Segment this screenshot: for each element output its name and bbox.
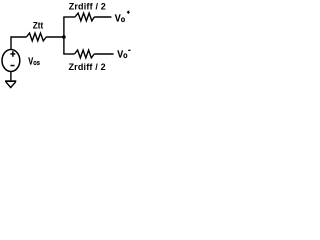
wire: bottom branch right bbox=[94, 53, 113, 55]
wire: bottom branch left bbox=[63, 53, 74, 55]
minus sign bbox=[11, 65, 15, 67]
svg-text:Zrdiff / 2: Zrdiff / 2 bbox=[69, 62, 106, 72]
svg-text:Vos: Vos bbox=[28, 55, 40, 67]
svg-text:Ztt: Ztt bbox=[33, 20, 44, 30]
wire: top branch left bbox=[63, 16, 75, 18]
ground bbox=[5, 80, 16, 82]
svg-text:Vo: Vo bbox=[117, 49, 128, 61]
wire: top branch right bbox=[94, 16, 111, 18]
plus sign bbox=[10, 53, 15, 54]
resistor Zrdiff/2 bottom bbox=[75, 50, 95, 58]
wire: Ztt right to junction bbox=[46, 36, 64, 38]
resistor Zrdiff/2 top bbox=[75, 13, 94, 21]
svg-text:Zrdiff / 2: Zrdiff / 2 bbox=[69, 2, 106, 12]
svg-text:Vo: Vo bbox=[115, 13, 126, 25]
wire: ellipse bottom to ground bbox=[10, 72, 12, 81]
wire: vertical bus bbox=[63, 17, 65, 54]
node junction dot bbox=[62, 35, 66, 39]
resistor Ztt bbox=[26, 33, 46, 41]
source V_os ellipse bbox=[2, 50, 20, 72]
wire: source top to Ztt left bbox=[11, 37, 26, 50]
